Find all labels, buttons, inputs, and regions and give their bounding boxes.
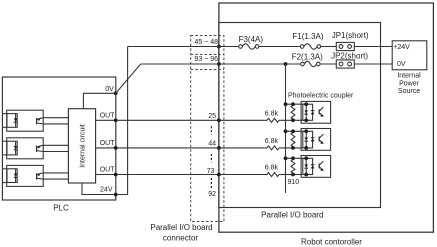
- resistor 910 ohm (row 3): [291, 160, 295, 174]
- wire: internal circuit 24V down, right, and up to 45~48 rail: [82, 47, 128, 195]
- robot controller enclosure: [219, 3, 434, 232]
- svg-text:92: 92: [208, 191, 216, 198]
- junction: OUT1 at PLC edge: [114, 118, 118, 122]
- Photoelectric coupler label: [288, 93, 354, 100]
- OUT3 terminal label (PLC): [100, 167, 116, 174]
- wire: row 1 input to coupler LED cathode: [279, 119, 306, 121]
- ellipsis between pins 44 and 73: [210, 154, 212, 163]
- svg-text:910: 910: [288, 179, 300, 186]
- svg-text:6.8k: 6.8k: [265, 138, 279, 145]
- svg-text:F3(4A): F3(4A): [239, 35, 264, 44]
- svg-text:0V: 0V: [105, 86, 114, 93]
- JP2(short) label: [331, 51, 368, 60]
- fuse F3 4A: [239, 44, 259, 49]
- junction: connector pin 45~48: [217, 45, 221, 49]
- internal circuit block (PLC): [68, 109, 95, 183]
- svg-text:Power: Power: [399, 80, 420, 87]
- svg-text:connector: connector: [163, 234, 198, 243]
- junction: 910 resistor top (row 1): [291, 102, 295, 106]
- Internal Power Source label: [397, 73, 421, 96]
- pin label 25: [208, 113, 216, 120]
- 910 value label: [288, 179, 300, 186]
- wire: ISO3 outputs to internal circuit: [43, 173, 69, 179]
- junction: 910 resistor top (row 2): [291, 129, 295, 133]
- svg-text:24V: 24V: [100, 187, 113, 194]
- svg-text:0V: 0V: [397, 61, 406, 68]
- 0V terminal label (power source): [397, 61, 406, 68]
- svg-text:93 ~ 96: 93 ~ 96: [195, 56, 219, 63]
- pin label 45 ~ 48: [195, 39, 219, 46]
- junction: bus tap row 2: [284, 129, 288, 133]
- junction: connector pin 25: [217, 118, 221, 122]
- svg-text:Internal circuit: Internal circuit: [80, 124, 87, 168]
- svg-text:44: 44: [208, 140, 216, 147]
- junction: 910 resistor bottom (row 1): [291, 118, 295, 122]
- svg-text:PLC: PLC: [53, 204, 69, 213]
- wire: OUT1 from internal circuit to 6.8k resistor: [96, 119, 267, 121]
- junction: bus tap row 1: [284, 102, 288, 106]
- pin label 44: [208, 140, 216, 147]
- junction: OUT3 at PLC edge: [114, 173, 118, 177]
- 6.8k value label (row 1): [265, 110, 279, 117]
- OUT1 terminal label (PLC): [100, 113, 116, 120]
- wire: coupler supply bus (vertical): [285, 64, 287, 193]
- parallel I/O board connector (dashed outline): [191, 36, 224, 222]
- jumper JP2 (short): [336, 60, 354, 68]
- svg-text:F2(1.3A): F2(1.3A): [292, 53, 323, 62]
- svg-text:+24V: +24V: [393, 44, 410, 51]
- junction: 910 resistor bottom (row 3): [291, 173, 295, 177]
- junction: connector pin 44: [217, 146, 221, 150]
- wire: ISO2 outputs to internal circuit: [43, 145, 69, 151]
- +24V terminal label (power source): [393, 44, 410, 51]
- jumper JP1 (short): [336, 42, 354, 50]
- svg-text:25: 25: [208, 113, 216, 120]
- resistor 910 ohm (row 2): [291, 133, 295, 147]
- opto-coupler ISO3 (PLC input isolator): [2, 165, 43, 186]
- ellipsis between pins 73 and 92: [210, 178, 212, 188]
- junction: OUT2 at PLC edge: [114, 146, 118, 150]
- ellipsis between pins 25 and 44: [210, 126, 212, 135]
- svg-text:OUT: OUT: [100, 140, 116, 147]
- pin label 93 ~ 96: [195, 56, 219, 63]
- junction: 24V at PLC edge: [114, 193, 118, 197]
- junction: connector pin 93~96: [217, 62, 221, 66]
- svg-text:Parallel I/O board: Parallel I/O board: [261, 211, 323, 220]
- Robot contoroller label: [301, 238, 362, 247]
- wire: +24V rail (pins 45~48): [128, 46, 393, 48]
- photoelectric coupler PC3: [301, 156, 331, 178]
- svg-text:Robot contoroller: Robot contoroller: [301, 238, 362, 247]
- wire: internal circuit 0V up and right to PLC edge: [83, 93, 115, 108]
- JP1(short) label: [332, 31, 369, 40]
- Parallel I/O board label: [261, 211, 323, 220]
- svg-text:F1(1.3A): F1(1.3A): [292, 32, 323, 41]
- wire: OUT2 from internal circuit to 6.8k resistor: [96, 147, 267, 149]
- opto-coupler ISO1 (PLC input isolator): [2, 110, 43, 131]
- junction: coupler supply bus tap on 0V rail: [284, 62, 288, 66]
- svg-text:Photoelectric coupler: Photoelectric coupler: [288, 93, 354, 100]
- PLC enclosure: [2, 77, 115, 200]
- svg-text:Parallel I/O board: Parallel I/O board: [150, 223, 212, 232]
- svg-text:JP1(short): JP1(short): [332, 31, 369, 40]
- pin label 73: [207, 168, 215, 175]
- junction: 910 resistor bottom (row 2): [291, 146, 295, 150]
- wire: row 3 input to coupler LED cathode: [279, 174, 306, 176]
- wire: row 2 input to coupler LED cathode: [279, 147, 306, 149]
- svg-text:45 ~ 48: 45 ~ 48: [195, 39, 219, 46]
- junction: connector pin 73: [217, 173, 221, 177]
- svg-text:Internal: Internal: [397, 73, 421, 80]
- wire: supply bus to coupler LED anode (row 2): [286, 130, 307, 132]
- svg-text:OUT: OUT: [100, 113, 116, 120]
- opto-coupler ISO2 (PLC input isolator): [2, 138, 43, 159]
- internal power source box: [392, 41, 427, 70]
- 6.8k value label (row 3): [265, 165, 279, 172]
- svg-text:Source: Source: [398, 88, 420, 95]
- junction: bus tap row 3: [284, 156, 288, 160]
- fuse F2 1.3A: [301, 61, 320, 66]
- PLC label: [53, 204, 69, 213]
- connector label: Parallel I/O board connector: [150, 223, 212, 243]
- svg-text:OUT: OUT: [100, 167, 116, 174]
- pin label 92: [208, 191, 216, 198]
- wire: 0V rail (pins 93~96): [141, 63, 393, 65]
- wire: OUT3 from internal circuit to 6.8k resistor: [96, 174, 267, 176]
- F1(1.3A) value label: [292, 32, 323, 41]
- wire: 0V diagonal up to 93~96 rail: [116, 64, 141, 93]
- resistor 6.8k (row 2): [267, 146, 279, 150]
- fuse F1 1.3A: [300, 44, 320, 49]
- photoelectric coupler PC2: [301, 129, 331, 151]
- wire: supply bus to coupler LED anode (row 1): [286, 103, 307, 105]
- wire: supply bus to coupler LED anode (row 3): [286, 157, 307, 159]
- wire: ISO1 outputs to internal circuit: [43, 118, 69, 124]
- resistor 6.8k (row 3): [267, 173, 279, 177]
- svg-text:6.8k: 6.8k: [265, 165, 279, 172]
- photoelectric coupler PC1: [301, 101, 331, 123]
- 24V terminal label (PLC): [100, 187, 113, 194]
- svg-text:6.8k: 6.8k: [265, 110, 279, 117]
- junction: 910 resistor top (row 3): [291, 156, 295, 160]
- resistor 6.8k (row 1): [267, 118, 279, 122]
- parallel I/O board enclosure: [219, 23, 381, 208]
- svg-text:JP2(short): JP2(short): [331, 51, 368, 60]
- F3(4A) value label: [239, 35, 264, 44]
- svg-text:73: 73: [207, 168, 215, 175]
- resistor 910 ohm (row 1): [291, 105, 295, 119]
- junction: 0V at PLC edge: [114, 91, 118, 95]
- Internal circuit label (rotated): [80, 124, 87, 168]
- OUT2 terminal label (PLC): [100, 140, 116, 147]
- 0V terminal label (PLC): [105, 86, 114, 93]
- F2(1.3A) value label: [292, 53, 323, 62]
- 6.8k value label (row 2): [265, 138, 279, 145]
